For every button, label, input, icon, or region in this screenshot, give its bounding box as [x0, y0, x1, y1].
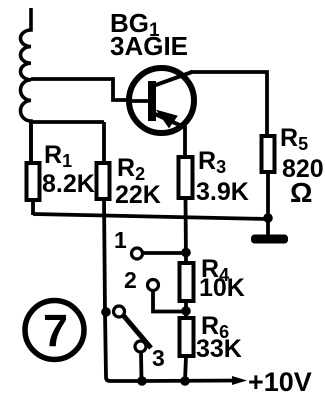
wire contact1 to R4 top — [143, 251, 183, 255]
switch contact 3 — [135, 341, 146, 352]
svg-text:22K: 22K — [115, 181, 161, 209]
node R6 rail junction — [180, 376, 190, 386]
wire tap2 coil to vertical line — [31, 120, 104, 124]
wire collector to top rail — [190, 72, 267, 136]
resistor R1 body — [27, 163, 40, 200]
resistor R6 body — [180, 318, 194, 356]
resistor R2 body — [97, 163, 110, 199]
transistor emitter arrow — [157, 111, 177, 128]
svg-text:7: 7 — [43, 305, 68, 356]
wire R4 bottom to R6 — [184, 301, 188, 318]
ground symbol — [266, 218, 270, 236]
wire ground rail R1 R2 R3 crossing — [33, 214, 268, 219]
svg-text:3: 3 — [152, 345, 165, 371]
node junction R4-R6 contact2 — [181, 306, 191, 316]
node ground junction — [263, 213, 273, 223]
wire tap1 coil to base step — [31, 79, 129, 100]
wire R5 bottom to ground node — [266, 172, 270, 218]
transistor emitter lead — [155, 114, 186, 128]
figure number circle 7 — [25, 301, 84, 360]
switch contact 1 — [132, 248, 143, 259]
svg-text:3.9K: 3.9K — [196, 178, 249, 206]
transistor base lead — [129, 99, 148, 103]
resistor R4 body — [180, 263, 194, 301]
wire R3 bottom through rail to R4 — [184, 198, 188, 263]
svg-text:8.2K: 8.2K — [42, 170, 95, 198]
wire vertical line tap2 down through R2 to switch pivot and bottom rail — [104, 122, 143, 381]
svg-text:Ω: Ω — [290, 177, 312, 208]
arrow +10V — [232, 376, 247, 385]
node junction R3-R4 contact1 — [181, 248, 191, 258]
svg-text:10K: 10K — [199, 274, 245, 302]
transistor base bar — [148, 81, 156, 121]
node switch pivot junction — [101, 307, 111, 317]
switch pivot contact — [114, 306, 125, 317]
wire contact2 down and right to R4-R6 junction — [153, 290, 183, 312]
transistor collector lead — [153, 72, 192, 86]
switch arm — [123, 315, 151, 348]
switch contact 2 — [148, 280, 159, 291]
wire coil bottom to R1 — [29, 121, 33, 163]
svg-text:3AGIE: 3AGIE — [110, 31, 188, 61]
transistor U1 circle — [129, 68, 194, 133]
inductor L1 — [20, 8, 31, 163]
svg-text:2: 2 — [124, 267, 137, 293]
svg-text:+10V: +10V — [248, 367, 312, 397]
wire emitter down to R3 — [183, 126, 187, 157]
svg-text:1: 1 — [114, 227, 127, 253]
wire bottom rail to +10V — [142, 379, 240, 383]
svg-text:33K: 33K — [196, 335, 242, 363]
resistor R3 body — [179, 157, 193, 198]
wire R1 bottom to rail — [31, 200, 35, 215]
resistor R5 body — [262, 136, 275, 172]
node contact3 rail junction — [137, 376, 147, 386]
wire contact3 to bottom rail — [139, 352, 143, 381]
wire R6 bottom to rail — [185, 356, 186, 381]
